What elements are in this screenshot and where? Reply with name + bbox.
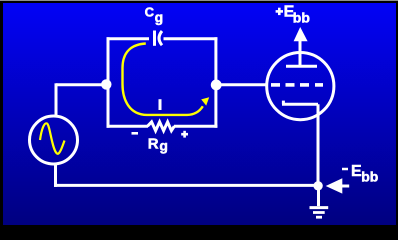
tube plate lead [299,41,302,67]
-Ebb arrowhead left [326,178,343,193]
wire: source top vertical lead [55,83,58,116]
wire: grid loop top edge right segment [164,37,218,40]
label I [159,99,162,110]
ground stem [317,188,320,206]
node: right junction dot [211,80,222,91]
-Ebb stub wire [342,185,349,188]
capacitor C_g plates [153,31,156,46]
label +Ebb [276,10,283,13]
svg-text:g: g [155,9,164,25]
AC source sine wave [40,123,65,153]
wire: bottom horizontal rail [54,184,320,187]
resistor R_g zigzag [148,122,175,131]
plate supply arrowhead up [294,27,308,41]
node: left junction dot [101,79,111,89]
wire: grid loop bottom edge right segment [174,125,217,128]
svg-text:C: C [145,4,155,19]
tube cathode bar with tick [282,101,285,105]
svg-text:g: g [159,138,168,154]
wire: cathode down to bottom rail [317,104,320,186]
wire: source top horizontal to left junction [56,83,106,86]
ground bar 1 [310,206,329,209]
wire: grid loop left edge [107,37,110,127]
wire: grid loop right edge [214,37,217,127]
resistor minus sign [132,132,139,135]
tube plate bar [286,65,317,68]
svg-text:bb: bb [293,9,310,25]
current loop arrow I (yellow) [123,44,203,115]
tube V1 envelope circle [267,53,334,120]
label -Ebb [342,168,348,171]
ground bar 3 [316,216,322,219]
wire: grid loop top edge left segment [107,37,150,40]
AC source circle [30,116,78,164]
wire: right junction to tube grid [216,83,267,86]
node: cathode junction dot [313,181,322,190]
svg-text:bb: bb [361,169,378,185]
resistor plus sign [181,133,188,136]
ground bar 2 [313,211,325,214]
svg-text:R: R [148,135,159,152]
tube grid dashes [271,83,280,87]
wire: grid loop bottom edge left segment [107,125,149,128]
wire: source bottom lead [54,164,57,187]
